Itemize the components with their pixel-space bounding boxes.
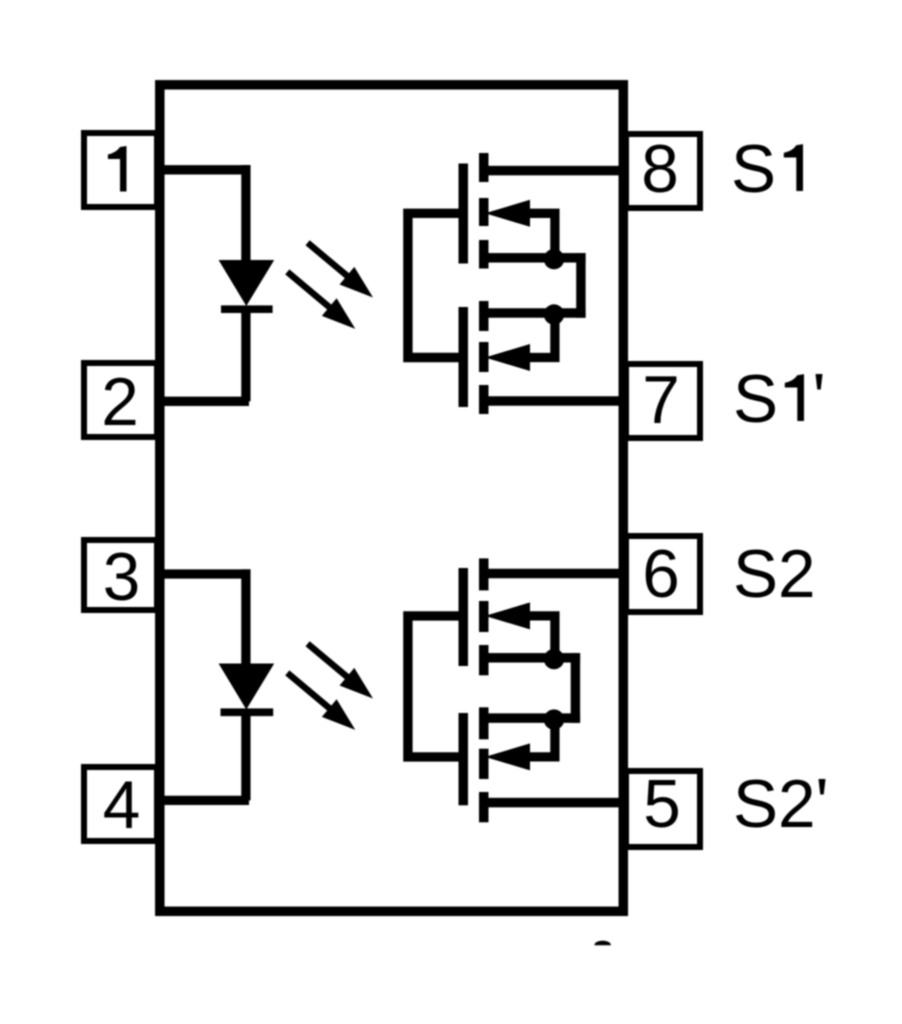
transistor Q2 body arrow xyxy=(485,344,530,371)
transistor Q4 gate bar xyxy=(459,713,469,805)
svg-text:3: 3 xyxy=(103,540,141,615)
svg-text:7: 7 xyxy=(642,363,680,438)
transistor Q2 channel dash (body) xyxy=(479,342,489,372)
wire Q2 source xyxy=(479,308,586,318)
transistor Q1 channel dash (source side) xyxy=(479,240,489,269)
svg-text:S: S xyxy=(733,362,778,437)
wire pin 3 to LED D2 anode xyxy=(157,569,246,666)
transistor Q2 gate bar xyxy=(459,307,469,407)
wire Q1 body to source junction xyxy=(525,213,555,257)
LED D2 triangle xyxy=(219,664,275,710)
wire Q4 drain to pin xyxy=(479,798,629,808)
transistor Q3 channel dash (source side) xyxy=(479,645,489,675)
transistor Q2 channel dash (source side) xyxy=(479,301,489,331)
wire Q2 drain to pin xyxy=(479,396,629,406)
transistor Q3 body arrow xyxy=(485,602,530,629)
LED D1 triangle xyxy=(219,260,275,306)
LED D2 light emission arrow lower xyxy=(287,673,332,711)
pin 7 box xyxy=(626,364,700,438)
wire gate bus Q3-Q4 xyxy=(408,616,459,757)
LED D2 cathode bar xyxy=(221,708,274,716)
transistor Q1 body arrow xyxy=(485,200,530,227)
svg-text:6: 6 xyxy=(642,537,680,612)
LED D1 light emission arrow lower xyxy=(287,272,332,310)
wire Q1 source xyxy=(479,253,586,262)
wire LED D1 cathode to pin 2 xyxy=(157,310,249,401)
LED D2 light emission arrow upper xyxy=(308,644,350,680)
svg-text:S: S xyxy=(731,132,776,207)
svg-text:S2: S2 xyxy=(733,537,816,612)
svg-text:S2: S2 xyxy=(733,767,816,842)
pin 1 number xyxy=(108,146,127,192)
pin 2 box xyxy=(84,363,157,437)
svg-text:8: 8 xyxy=(641,132,679,207)
LED D1 cathode bar xyxy=(221,305,273,313)
wire gate bus Q1-Q2 xyxy=(408,213,459,357)
svg-text:2: 2 xyxy=(101,365,139,440)
pin 8 box xyxy=(626,134,700,208)
wire common source link Q3-Q4 xyxy=(571,653,580,723)
transistor Q3 gate bar xyxy=(459,568,469,666)
wire Q3 drain to pin xyxy=(479,569,629,579)
transistor Q4 body arrow xyxy=(485,743,530,770)
transistor Q4 channel dash (source side) xyxy=(479,707,489,739)
pin 5 box xyxy=(626,771,700,847)
wire Q2 body to source junction xyxy=(525,313,555,358)
transistor Q1 channel dash (body) xyxy=(479,198,489,226)
wire pin 1 to LED D1 anode xyxy=(157,165,246,262)
transistor Q3 channel dash (body) xyxy=(479,601,489,632)
pin 4 box xyxy=(84,767,157,841)
transistor Q4 channel dash (drain side) xyxy=(479,792,489,822)
IC body outline (8-pin package) xyxy=(160,85,624,912)
pin 6 box xyxy=(626,536,700,612)
junction dot Q2 body-source xyxy=(544,304,564,324)
stray ink mark (cropped character) below IC xyxy=(594,941,611,946)
wire Q4 source xyxy=(479,713,580,723)
wire common source link Q1-Q2 xyxy=(576,253,585,318)
LED D1 light emission arrow upper xyxy=(308,243,350,278)
junction dot Q3 body-source xyxy=(544,649,564,669)
transistor Q1 gate bar xyxy=(459,164,469,264)
transistor Q2 channel dash (drain side) xyxy=(479,385,489,414)
pin 1 box xyxy=(84,133,157,207)
junction dot Q1 body-source xyxy=(544,249,564,269)
wire Q3 body to source junction xyxy=(525,616,555,658)
transistor Q4 channel dash (body) xyxy=(479,749,489,779)
wire Q4 body to source junction xyxy=(525,718,555,757)
wire Q1 drain to pin xyxy=(479,166,629,176)
transistor Q1 channel dash (drain side) xyxy=(479,153,489,182)
wire Q3 source xyxy=(479,653,580,663)
transistor Q3 channel dash (drain side) xyxy=(479,558,489,590)
junction dot Q4 body-source xyxy=(544,709,564,729)
svg-text:5: 5 xyxy=(643,767,681,842)
wire LED D2 cathode to pin 4 xyxy=(157,714,249,800)
svg-text:4: 4 xyxy=(103,768,141,843)
pin 3 box xyxy=(84,540,157,610)
